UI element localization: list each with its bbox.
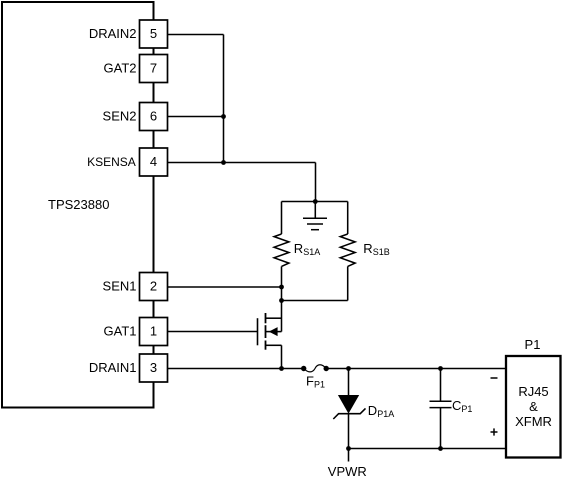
svg-text:TPS23880: TPS23880 [48, 197, 109, 212]
pin 6 SEN2 [103, 103, 168, 131]
fuse FP1 [301, 365, 329, 372]
capacitor CP1 [430, 369, 452, 449]
svg-text:&: & [529, 399, 538, 414]
svg-text:6: 6 [150, 109, 157, 124]
wire bottom rail VPWR [349, 448, 507, 450]
pin 4 KSENSA [87, 148, 167, 176]
resistor RS1A [274, 202, 289, 301]
svg-text:4: 4 [150, 154, 157, 169]
resistor RS1B [340, 202, 355, 301]
svg-text:DRAIN1: DRAIN1 [89, 360, 137, 375]
svg-text:VPWR: VPWR [328, 464, 367, 479]
wire rail fuse to P1 [326, 368, 506, 370]
wire resistor top bar [282, 201, 348, 203]
wire pin5 DRAIN2 to right bus [168, 34, 224, 36]
junction dot FET source / rail [279, 366, 284, 371]
pin 5 DRAIN2 [89, 20, 168, 48]
svg-text:GAT2: GAT2 [104, 61, 137, 76]
P1 plus terminal [491, 428, 498, 435]
wire right bus vertical (pin5 to KSENSA net) [223, 35, 225, 163]
wire node down to FET drain [281, 301, 283, 332]
svg-text:P1: P1 [525, 337, 541, 352]
svg-text:2: 2 [150, 279, 157, 294]
junction dot resistor bottom node [279, 298, 284, 303]
wire KSENSA jog down to resistor top bar [315, 163, 317, 202]
pin 3 DRAIN1 [89, 354, 168, 382]
svg-text:5: 5 [150, 26, 157, 41]
svg-text:RJ45: RJ45 [518, 384, 548, 399]
svg-text:GAT1: GAT1 [104, 324, 137, 339]
wire pin4 KSENSA horizontal [168, 162, 316, 164]
diode DP1A TVS [333, 369, 365, 449]
junction dot SEN2/bus [221, 114, 226, 119]
ground [303, 202, 327, 230]
junction dot diode branch [346, 366, 351, 371]
IC U1 TPS23880 body [2, 2, 154, 408]
pin 1 GAT1 [104, 318, 168, 346]
junction dot KSENSA/bus [221, 160, 226, 165]
junction dot capacitor branch bottom [438, 446, 443, 451]
pin 2 SEN1 [103, 273, 168, 301]
svg-text:XFMR: XFMR [515, 414, 552, 429]
wire pin2 SEN1 to node [168, 286, 282, 288]
svg-text:SEN2: SEN2 [103, 109, 137, 124]
pin 7 GAT2 [104, 55, 168, 83]
svg-text:SEN1: SEN1 [103, 279, 137, 294]
wire pin6 SEN2 to right bus [168, 116, 224, 118]
svg-text:7: 7 [150, 61, 157, 76]
wire resistor bottom bar [282, 300, 348, 302]
junction dot ground node [313, 199, 318, 204]
svg-text:DRAIN2: DRAIN2 [89, 26, 137, 41]
svg-text:3: 3 [150, 360, 157, 375]
wire VPWR stub [348, 449, 350, 462]
svg-text:1: 1 [150, 324, 157, 339]
junction dot capacitor branch top [438, 366, 443, 371]
junction dot VPWR node [346, 446, 351, 451]
transistor Q1 n-channel MOSFET [258, 313, 282, 369]
P1 minus terminal [491, 377, 498, 379]
junction dot SEN1 node [279, 285, 284, 290]
wire pin3 DRAIN1 horizontal rail [168, 368, 304, 370]
wire pin1 GAT1 to FET gate [168, 331, 258, 333]
P1 text RJ45 & XFMR [515, 384, 552, 429]
svg-text:KSENSA: KSENSA [87, 155, 136, 169]
connector P1 box [506, 356, 561, 458]
